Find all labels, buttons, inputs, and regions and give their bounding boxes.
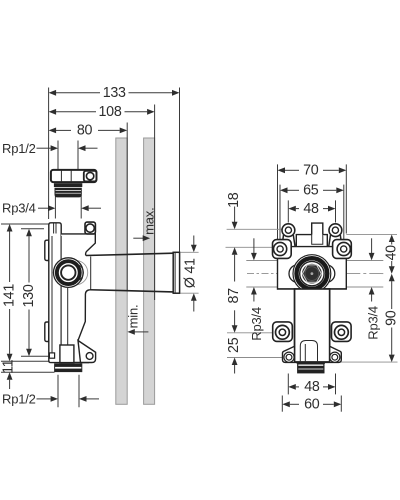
svg-text:87: 87	[226, 288, 242, 304]
dimension 80	[49, 122, 128, 138]
second lug right rings	[337, 242, 350, 255]
dimension 108	[49, 104, 155, 120]
union nut of top fitting	[51, 170, 97, 182]
cartridge arc right	[78, 265, 83, 281]
bottom lug right rings	[335, 325, 349, 339]
outlet box with threads	[297, 362, 325, 373]
top lug necks	[282, 235, 342, 247]
extension lines 48 bottom	[287, 374, 289, 395]
dimension 141 vertical	[1, 224, 50, 361]
side view back plate	[49, 223, 61, 363]
step edges under plate	[278, 289, 347, 346]
label Rp3/4 top	[2, 195, 101, 219]
wall bar max (far)	[144, 138, 155, 404]
dimension 11 vertical	[1, 359, 55, 389]
grey line top lug centers y229.3	[227, 228, 282, 230]
foot bracket side view	[78, 341, 96, 363]
dimension 48 top	[288, 201, 335, 217]
valve dark ring	[57, 261, 80, 284]
threaded section of top fitting	[54, 183, 82, 197]
svg-text:Rp3/4: Rp3/4	[249, 307, 264, 341]
svg-text:40: 40	[384, 245, 400, 261]
tab inner line	[312, 235, 323, 245]
dimension 87	[226, 247, 242, 332]
extension lines 70	[277, 164, 279, 242]
extension line 133 right x=179.5	[179, 88, 181, 253]
extension line 108 right x=154.6	[154, 105, 156, 301]
label max with arrow	[133, 208, 156, 242]
top small lug left	[282, 224, 295, 237]
wall bar min (near)	[116, 138, 127, 404]
extension lines 48 top	[287, 200, 289, 222]
extension line left reference x=48.6	[48, 88, 50, 220]
svg-text:70: 70	[303, 162, 319, 178]
grey line body top y247.3 left	[226, 246, 278, 248]
svg-text:130: 130	[21, 284, 37, 307]
valve front ears	[289, 265, 307, 283]
dimension 25	[226, 337, 242, 373]
main housing block	[61, 234, 95, 363]
svg-text:max.: max.	[141, 208, 156, 235]
dimension dia 41	[181, 236, 199, 312]
label Rp1/2 top	[2, 141, 98, 170]
label min with arrow	[125, 305, 148, 335]
grey centerline y273.6	[247, 273, 277, 275]
top small lug right	[329, 224, 342, 237]
dimension 65	[280, 182, 344, 198]
foot bracket hole	[86, 353, 93, 360]
bottom lug flange left	[273, 322, 293, 342]
label Rp1/2 bottom	[2, 375, 99, 408]
inner housing line below valve	[67, 288, 69, 345]
top center tab	[312, 223, 323, 235]
narrow section	[295, 289, 330, 362]
svg-text:48: 48	[303, 201, 319, 217]
svg-text:48: 48	[304, 379, 320, 395]
svg-text:65: 65	[303, 182, 319, 198]
dimension 60 bottom	[282, 397, 341, 413]
faint arc right	[77, 260, 88, 284]
svg-text:80: 80	[77, 122, 93, 138]
extension lines 65	[279, 185, 281, 240]
svg-text:25: 25	[226, 337, 242, 353]
grey lines port top y260.5	[246, 260, 277, 262]
tube end cap	[173, 252, 179, 293]
svg-text:133: 133	[103, 85, 126, 101]
narrow section redraw over bracket	[295, 289, 330, 362]
bottom port rect	[60, 345, 74, 363]
second lug flange left	[273, 240, 292, 259]
foot bracket front	[283, 346, 342, 362]
grey line 90 bottom y362.1	[330, 361, 398, 363]
bottom lug left rings	[276, 325, 290, 339]
front body wide plate	[278, 247, 347, 289]
inner outlet window	[300, 341, 317, 362]
svg-text:Ø 41: Ø 41	[182, 258, 198, 288]
svg-text:Rp3/4: Rp3/4	[365, 306, 380, 340]
svg-text:141: 141	[1, 284, 17, 307]
spout tube side view	[86, 253, 173, 292]
svg-text:min.: min.	[125, 305, 140, 329]
bottom left small tab	[49, 353, 54, 358]
dimension 90 right	[384, 274, 400, 362]
dimension 18 chain	[226, 192, 242, 229]
svg-text:90: 90	[384, 310, 400, 326]
valve front circle group	[293, 255, 331, 293]
svg-text:Rp3/4: Rp3/4	[2, 201, 36, 216]
second lug left rings	[274, 242, 287, 255]
svg-text:Rp1/2: Rp1/2	[2, 141, 36, 156]
dimension 40 right	[384, 235, 400, 274]
svg-text:18: 18	[226, 192, 242, 208]
svg-text:Rp1/2: Rp1/2	[2, 392, 36, 407]
bottom lug flange right	[332, 322, 352, 342]
mounting lug upper left	[45, 240, 49, 260]
grey line foot top y357.5	[227, 357, 284, 359]
mounting lug lower left	[45, 322, 49, 342]
dimension 130 vertical	[21, 229, 50, 357]
top boss screw hole	[86, 224, 94, 232]
dimension 48 bottom	[288, 379, 335, 395]
svg-text:60: 60	[304, 397, 320, 413]
grey line bottom lug centers y332.8	[227, 332, 272, 334]
valve body circle outer	[54, 258, 84, 288]
svg-text:11: 11	[1, 359, 17, 374]
svg-text:108: 108	[99, 104, 122, 120]
dimension 70	[278, 162, 347, 178]
extension lines 60 bottom	[281, 396, 283, 412]
grey line 40 top right y234.4	[346, 233, 397, 235]
label Rp3/4 left with arrows	[249, 238, 264, 340]
extension line 80 right x=127.2	[126, 123, 128, 291]
second lug flange right	[333, 240, 352, 259]
bottom collar threads	[55, 363, 82, 372]
inner plate vertical line	[51, 236, 53, 353]
grey lines port bottom y287	[246, 286, 277, 288]
valve inner ring	[61, 265, 75, 279]
top edge segments y234.6	[296, 235, 327, 247]
label Rp3/4 right with arrows	[365, 238, 380, 339]
top screw boss side view	[85, 222, 95, 234]
inner plate line top slot	[53, 223, 55, 233]
dimension 133	[49, 85, 180, 101]
tube root line	[90, 256, 92, 289]
